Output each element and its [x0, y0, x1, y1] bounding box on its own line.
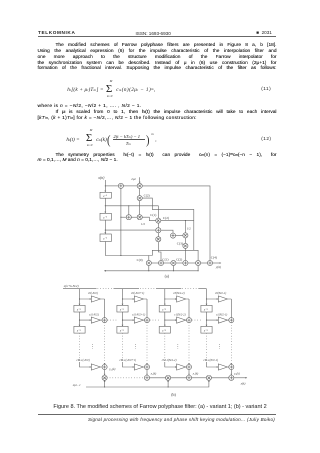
- amplifier c1(-N/2+1) triangle: [123, 317, 145, 323]
- wire top distribution line: [63, 288, 207, 290]
- svg-text:z⁻¹: z⁻¹: [161, 307, 166, 311]
- adder col2 row2: [144, 318, 149, 323]
- wire down to M4 top: [184, 221, 186, 233]
- wire M3 to X1: [142, 217, 156, 220]
- multiplier X1: [156, 218, 161, 223]
- wire X2 down to X3: [157, 233, 159, 237]
- wire output arrow: [234, 377, 246, 379]
- delay z-1 box D2: [100, 213, 111, 220]
- arrowheads into delay boxes fig a: [104, 182, 140, 234]
- svg-text:cM-1(N/2-2): cM-1(N/2-2): [162, 358, 177, 362]
- svg-text:cM-1(-N/2+1): cM-1(-N/2+1): [120, 358, 137, 362]
- node taps col4: [206, 298, 207, 320]
- wire A2 to M3: [131, 216, 137, 218]
- amplifier c0(-N/2+1) triangle: [123, 296, 148, 302]
- wire mu input into M1: [139, 177, 141, 183]
- svg-text:y₁(k): y₁(k): [192, 372, 199, 376]
- wire mu bus drops: [149, 265, 198, 270]
- svg-text:c1(-N/2): c1(-N/2): [89, 312, 99, 316]
- svg-text:c1(N/2-1): c1(N/2-1): [216, 312, 227, 316]
- amplifier c0(-N/2) triangle: [80, 296, 105, 302]
- wire dotted continuation verticals col1: [80, 322, 105, 362]
- wire B5-B6: [201, 262, 208, 264]
- amplifier c0(N/2-1) triangle: [207, 296, 232, 302]
- wire output arrow y(k): [212, 262, 219, 264]
- delay z-1 box col1 row2: [74, 326, 85, 333]
- multiplier horner H5: [206, 375, 211, 380]
- svg-text:y₂(k): y₂(k): [150, 372, 157, 376]
- wire rail col4 upper: [230, 299, 232, 318]
- node junction A1-line to A2: [120, 217, 121, 218]
- wire B1-B2: [151, 262, 158, 264]
- svg-text:y(k): y(k): [240, 381, 246, 385]
- where line: [38, 104, 142, 109]
- adder col2 bottom: [144, 364, 149, 369]
- adder col3 row2: [186, 318, 191, 323]
- wire junction to adder A2: [121, 216, 127, 218]
- wire A1 to M1: [123, 185, 137, 187]
- column 4 tap vertical: [206, 289, 208, 327]
- node taps col1: [79, 298, 80, 320]
- node bus junctions: [148, 270, 198, 271]
- adder horner H2: [144, 375, 149, 380]
- delay z-1 box col4 row2: [201, 326, 212, 333]
- ellipsis tick col3: [177, 344, 179, 349]
- wire rail col2 upper: [146, 299, 148, 318]
- wire M1 down to M2: [139, 189, 141, 196]
- wire tap row y=230.1: [105, 229, 156, 231]
- amplifier cM-1(-N/2+1) triangle: [123, 362, 145, 370]
- adder horner H4: [186, 375, 191, 380]
- svg-text:z⁻¹: z⁻¹: [119, 329, 124, 333]
- wire rail to horner row col3: [188, 369, 190, 375]
- adder B2: [158, 260, 163, 265]
- svg-text:x(n+k-N/2): x(n+k-N/2): [63, 284, 79, 288]
- footer: [38, 413, 277, 416]
- wire top line dotted gaps: [98, 288, 198, 290]
- adder B4: [183, 260, 188, 265]
- column 3 tap vertical: [164, 289, 166, 327]
- column 1 tap vertical: [79, 289, 81, 327]
- svg-text:2μі - 1: 2μі - 1: [73, 383, 81, 387]
- wire dotted continuation verticals col3: [165, 322, 189, 362]
- ellipsis tick col4: [219, 344, 221, 349]
- node junction at 185.4 on top edge: [185, 220, 186, 221]
- caption: [0, 404, 320, 410]
- multiplier M5: [183, 243, 188, 248]
- delay z-1 box col3 row1: [159, 305, 170, 312]
- wire X2 output right and down to X4: [161, 230, 173, 233]
- wire H2-H3: [149, 377, 165, 379]
- wire H4-H5: [191, 377, 206, 379]
- multiplier horner H1: [102, 375, 107, 380]
- adder col1 bottom: [102, 364, 107, 369]
- node junction A2 top: [128, 205, 129, 206]
- svg-text:z⁻¹: z⁻¹: [76, 329, 81, 333]
- arrowheads fig b: [79, 298, 233, 382]
- adder horner H6 output: [229, 375, 234, 380]
- wire dotted continuation verticals col4: [207, 322, 232, 362]
- ellipsis tick col2: [135, 344, 137, 349]
- node taps col2: [122, 298, 123, 320]
- wire X1 down to X2: [157, 223, 159, 228]
- adder col4 bottom: [229, 364, 234, 369]
- wire dotted continuation verticals col2: [123, 322, 148, 362]
- wire tap row y=205.8: [105, 206, 158, 218]
- wire A1 output down: [120, 188, 122, 255]
- delay z-1 box col4 row1: [201, 305, 212, 312]
- svg-text:z⁻¹: z⁻¹: [76, 307, 81, 311]
- wire B3-B4: [176, 262, 183, 264]
- svg-text:cM-1(N/2-1): cM-1(N/2-1): [204, 358, 219, 362]
- delay z-1 box col3 row2: [159, 326, 170, 333]
- adder col3 bottom: [186, 364, 191, 369]
- amplifier c1(-N/2) triangle: [80, 317, 103, 323]
- svg-text:y₀(k): y₀(k): [233, 372, 240, 376]
- svg-text:c1(N/2-2): c1(N/2-2): [174, 312, 185, 316]
- wire X1 output right top edge: [161, 220, 194, 222]
- multiplier M1: [137, 183, 142, 188]
- wire B4-B5: [188, 262, 196, 264]
- amplifier cM-1(-N/2) triangle: [80, 362, 103, 370]
- wire A2 top input: [128, 206, 130, 215]
- wire to adder A1: [105, 185, 118, 187]
- wire row2 inter-column dots: [108, 319, 202, 321]
- amplifier c1(N/2-1) triangle: [207, 317, 229, 323]
- svg-text:cM-1(-N/2): cM-1(-N/2): [77, 358, 90, 362]
- multiplier M3: [137, 215, 142, 220]
- wire M1 long output to right edge then down to adder B6: [142, 186, 210, 261]
- amplifier cM-1(N/2-1) triangle: [207, 362, 229, 370]
- node junction on feed row: [120, 255, 121, 256]
- adder A1: [118, 183, 123, 188]
- adder col1 row2: [102, 318, 107, 323]
- adder A2: [126, 215, 131, 220]
- node bus junctions: [104, 386, 169, 387]
- svg-text:ym(k): ym(k): [108, 367, 115, 372]
- equation (12): [66, 137, 79, 143]
- delay z-1 box col2 row2: [117, 326, 128, 333]
- svg-text:z⁻¹: z⁻¹: [203, 307, 208, 311]
- multiplier B3: [171, 260, 176, 265]
- wire M2 down to M3: [139, 201, 141, 215]
- wire M4 down to M5: [184, 238, 186, 244]
- adder X4: [170, 233, 175, 238]
- svg-text:c1(-N/2+1): c1(-N/2+1): [132, 312, 145, 316]
- svg-text:c0(N/2-2): c0(N/2-2): [173, 291, 184, 295]
- wire M5 down to bottom adder B4: [184, 248, 186, 260]
- delay z-1 box D3: [100, 234, 111, 242]
- amplifier cM-1(N/2-2) triangle: [165, 362, 187, 370]
- svg-text:(b): (b): [171, 392, 176, 397]
- wire rail to horner row col4: [230, 369, 232, 375]
- wire rail col1 upper: [104, 299, 106, 318]
- svg-text:z⁻¹: z⁻¹: [119, 307, 124, 311]
- svg-text:z⁻¹: z⁻¹: [203, 329, 208, 333]
- adder col4 row2: [229, 318, 234, 323]
- mu bus left arrowhead: [104, 270, 106, 272]
- node taps col3: [164, 298, 165, 320]
- header row: [38, 30, 75, 35]
- wire mu bus horizontal: [104, 270, 198, 272]
- wire rail to horner row col2: [146, 369, 148, 375]
- svg-text:c0(-N/2+1): c0(-N/2+1): [131, 291, 144, 295]
- wire main input vertical: [104, 180, 106, 256]
- wire B2-B3: [163, 262, 171, 264]
- svg-text:c0(-N/2): c0(-N/2): [88, 291, 98, 295]
- symmetry paragraph: [38, 152, 277, 159]
- multiplier M4: [183, 233, 188, 238]
- multiplier B5: [196, 260, 201, 265]
- multiplier M2: [137, 196, 142, 201]
- wire X3 down to bottom adder B2: [158, 242, 161, 261]
- amplifier c1(N/2-2) triangle: [165, 317, 187, 323]
- amplifier c0(N/2-2) triangle: [165, 296, 189, 302]
- wire horner dotted H1-H2: [107, 377, 145, 379]
- adder B6: [207, 260, 212, 265]
- svg-text:c0(N/2-1): c0(N/2-1): [215, 291, 226, 295]
- multiplier B1: [146, 260, 151, 265]
- column 2 tap vertical: [122, 289, 124, 327]
- wire rail to horner row col1: [104, 369, 106, 375]
- node junctions on input line: [105, 185, 106, 230]
- delay z-1 box D1: [100, 192, 111, 198]
- wire bottom feed row y=255.5: [105, 256, 152, 261]
- multiplier X3: [156, 237, 161, 242]
- wire rail col3 upper: [188, 299, 190, 318]
- wire X4 to M4: [175, 235, 183, 237]
- multiplier horner H3: [166, 375, 171, 380]
- adder X2: [156, 228, 161, 233]
- delay z-1 box col1 row1: [74, 305, 85, 312]
- delay z-1 box col2 row1: [117, 305, 128, 312]
- equation (11): [67, 87, 103, 93]
- ellipsis tick col1: [92, 344, 94, 349]
- wire M2 output right then down right side frame: [142, 198, 198, 260]
- svg-text:z⁻¹: z⁻¹: [161, 329, 166, 333]
- wire H3-H4: [171, 377, 187, 379]
- wire mu bus: [86, 380, 209, 387]
- paragraph 1 (justified lines): [38, 43, 277, 49]
- wire H5-H6: [211, 377, 229, 379]
